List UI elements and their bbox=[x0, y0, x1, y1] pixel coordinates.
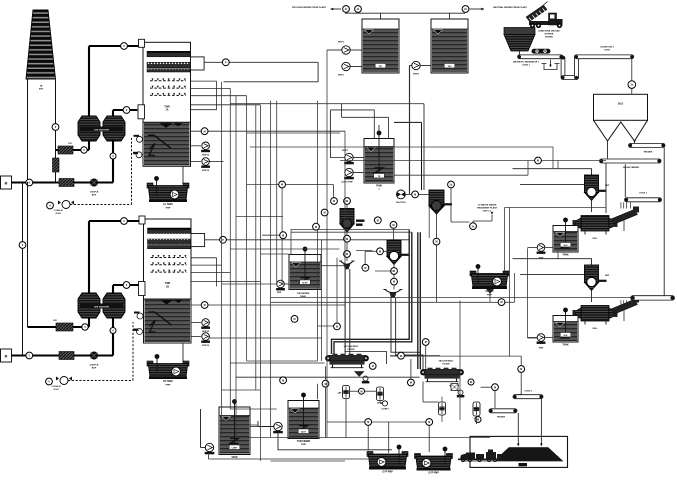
svg-text:TANK: TANK bbox=[376, 184, 383, 187]
svg-text:PMP: PMP bbox=[166, 384, 171, 386]
svg-text:M: M bbox=[325, 383, 327, 386]
svg-text:24XT: 24XT bbox=[301, 431, 307, 434]
svg-text:UNIT 1-2: UNIT 1-2 bbox=[483, 211, 492, 213]
svg-text:SILO: SILO bbox=[618, 103, 624, 106]
svg-text:M: M bbox=[367, 421, 369, 424]
svg-text:M: M bbox=[470, 381, 472, 384]
svg-text:M: M bbox=[400, 355, 402, 358]
svg-text:SLRY: SLRY bbox=[302, 283, 308, 285]
svg-text:M: M bbox=[282, 379, 284, 382]
svg-text:WXP-B: WXP-B bbox=[202, 170, 209, 172]
svg-text:PMP: PMP bbox=[277, 292, 282, 294]
svg-text:M: M bbox=[477, 419, 479, 422]
svg-text:M: M bbox=[414, 194, 416, 197]
svg-text:HOPPER: HOPPER bbox=[545, 34, 554, 36]
svg-text:THICKENER: THICKENER bbox=[297, 293, 310, 295]
svg-text:GGH: GGH bbox=[54, 389, 59, 391]
svg-text:CONV 4: CONV 4 bbox=[524, 390, 532, 393]
svg-text:FEEDER: FEEDER bbox=[497, 417, 506, 419]
svg-text:MILL: MILL bbox=[593, 328, 599, 330]
svg-text:1X0 GGH HTR: 1X0 GGH HTR bbox=[94, 130, 109, 132]
svg-text:THICKENER: THICKENER bbox=[297, 441, 311, 443]
svg-text:M: M bbox=[372, 365, 374, 368]
svg-text:SLK: SLK bbox=[563, 245, 568, 247]
svg-text:PMP: PMP bbox=[539, 348, 544, 350]
svg-text:TREATMENT PLANT: TREATMENT PLANT bbox=[477, 207, 498, 210]
svg-text:VACUUM BELT: VACUUM BELT bbox=[344, 345, 360, 348]
svg-text:SEP: SEP bbox=[605, 275, 610, 277]
svg-text:M: M bbox=[315, 226, 317, 229]
svg-text:CONV 3: CONV 3 bbox=[639, 193, 648, 195]
svg-text:FILTER: FILTER bbox=[347, 349, 355, 351]
svg-text:PMP: PMP bbox=[301, 444, 306, 446]
svg-text:WXP-B: WXP-B bbox=[202, 345, 209, 347]
svg-text:M: M bbox=[494, 386, 496, 389]
svg-text:GGH: GGH bbox=[56, 213, 61, 215]
svg-text:W/GRID: W/GRID bbox=[545, 37, 553, 39]
svg-text:PMP: PMP bbox=[166, 207, 171, 209]
svg-text:M: M bbox=[379, 250, 381, 253]
svg-text:M: M bbox=[520, 368, 522, 371]
svg-text:M: M bbox=[428, 421, 430, 424]
svg-text:M: M bbox=[282, 234, 284, 237]
svg-text:2x50% PMP: 2x50% PMP bbox=[341, 182, 353, 184]
svg-text:VACUUM BELT: VACUUM BELT bbox=[439, 360, 455, 363]
svg-text:BUF: BUF bbox=[92, 194, 97, 196]
svg-text:SHUTTLE: SHUTTLE bbox=[396, 202, 406, 204]
svg-text:M: M bbox=[410, 382, 412, 385]
svg-text:1B: 1B bbox=[40, 86, 43, 88]
svg-text:GYP PMP: GYP PMP bbox=[428, 473, 439, 475]
svg-text:M: M bbox=[5, 182, 8, 186]
svg-text:1 BUF-B: 1 BUF-B bbox=[90, 192, 99, 194]
svg-text:FEEDER: FEEDER bbox=[644, 151, 653, 153]
svg-text:M: M bbox=[436, 241, 438, 244]
svg-text:1B: 1B bbox=[166, 285, 169, 288]
svg-text:WXP1: WXP1 bbox=[338, 75, 345, 77]
svg-text:PROCESS WATER FROM PLANT: PROCESS WATER FROM PLANT bbox=[292, 6, 327, 9]
svg-text:WXP-B: WXP-B bbox=[202, 154, 209, 156]
svg-text:M: M bbox=[537, 160, 539, 163]
svg-text:M: M bbox=[346, 238, 348, 241]
svg-text:STK: STK bbox=[39, 88, 44, 90]
svg-text:BUF: BUF bbox=[92, 367, 97, 369]
svg-text:FILTER: FILTER bbox=[442, 364, 450, 366]
svg-text:TANK: TANK bbox=[231, 456, 238, 459]
svg-text:TANK: TANK bbox=[562, 343, 569, 346]
svg-text:1A TANK: 1A TANK bbox=[163, 203, 173, 206]
svg-text:M: M bbox=[393, 281, 395, 284]
svg-text:1 GGH-B: 1 GGH-B bbox=[53, 210, 63, 212]
svg-text:M: M bbox=[324, 212, 326, 215]
svg-text:LIMESTONE UNLOAD: LIMESTONE UNLOAD bbox=[538, 30, 560, 33]
svg-text:1A: 1A bbox=[165, 109, 168, 112]
svg-text:M: M bbox=[393, 224, 395, 227]
svg-text:LMST: LMST bbox=[232, 448, 238, 450]
svg-text:M: M bbox=[204, 304, 206, 307]
svg-text:MILL: MILL bbox=[593, 238, 599, 240]
svg-text:SLK: SLK bbox=[563, 335, 568, 337]
svg-text:TO WASTE WATER: TO WASTE WATER bbox=[478, 204, 497, 207]
svg-text:2X0 GGH HTR: 2X0 GGH HTR bbox=[94, 307, 109, 309]
svg-text:M: M bbox=[204, 130, 206, 133]
svg-text:M: M bbox=[501, 301, 503, 304]
svg-text:TANK: TANK bbox=[562, 253, 569, 256]
svg-text:NEUTRAL WATER FROM PLANT: NEUTRAL WATER FROM PLANT bbox=[493, 6, 527, 9]
svg-text:1B TANK: 1B TANK bbox=[163, 380, 173, 383]
svg-text:M: M bbox=[333, 200, 335, 203]
svg-text:M: M bbox=[377, 219, 379, 222]
svg-text:CONV: CONV bbox=[604, 50, 611, 52]
svg-text:WXP2: WXP2 bbox=[342, 150, 349, 152]
svg-text:M: M bbox=[393, 270, 395, 273]
svg-text:M: M bbox=[281, 184, 283, 187]
svg-text:M: M bbox=[294, 318, 296, 321]
svg-text:CONVEYOR 2: CONVEYOR 2 bbox=[600, 47, 614, 49]
svg-text:WXP2: WXP2 bbox=[413, 74, 420, 76]
svg-text:MAGNETIC SEPARATOR 1: MAGNETIC SEPARATOR 1 bbox=[513, 61, 540, 64]
svg-text:M: M bbox=[346, 200, 348, 203]
svg-text:2 BUF-B: 2 BUF-B bbox=[90, 365, 99, 367]
svg-text:M: M bbox=[361, 390, 363, 393]
svg-text:12XBP1: 12XBP1 bbox=[381, 409, 389, 411]
svg-text:M: M bbox=[346, 253, 348, 256]
svg-text:CONV 1: CONV 1 bbox=[522, 65, 531, 67]
svg-text:M: M bbox=[425, 341, 427, 344]
svg-text:2 GGH-B: 2 GGH-B bbox=[51, 386, 61, 388]
svg-text:GYP PMP: GYP PMP bbox=[382, 472, 393, 474]
svg-text:WXP1: WXP1 bbox=[338, 42, 345, 44]
svg-text:M: M bbox=[5, 355, 8, 359]
svg-text:M: M bbox=[336, 326, 338, 329]
svg-text:TK: TK bbox=[378, 176, 381, 178]
svg-text:M: M bbox=[364, 267, 366, 270]
